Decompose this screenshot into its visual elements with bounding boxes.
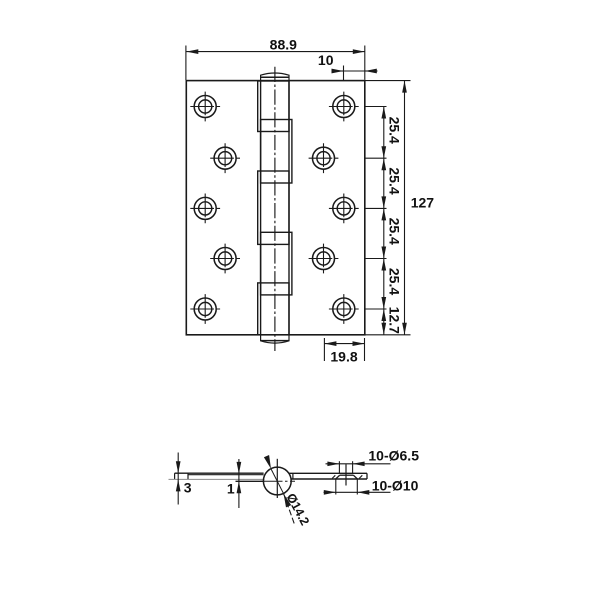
svg-text:1: 1 <box>227 480 235 496</box>
svg-text:25.4: 25.4 <box>386 117 402 144</box>
svg-text:127: 127 <box>411 195 435 211</box>
svg-text:25.4: 25.4 <box>386 218 402 245</box>
svg-text:88.9: 88.9 <box>270 37 297 53</box>
svg-text:10-Ø10: 10-Ø10 <box>372 478 419 494</box>
svg-text:Ø14.2: Ø14.2 <box>284 491 312 528</box>
svg-text:25.4: 25.4 <box>386 268 402 295</box>
svg-text:19.8: 19.8 <box>330 349 357 365</box>
svg-text:10: 10 <box>318 52 334 68</box>
svg-text:12.7: 12.7 <box>386 307 402 334</box>
svg-text:3: 3 <box>184 480 192 496</box>
svg-text:25.4: 25.4 <box>386 167 402 194</box>
svg-text:10-Ø6.5: 10-Ø6.5 <box>368 448 419 464</box>
